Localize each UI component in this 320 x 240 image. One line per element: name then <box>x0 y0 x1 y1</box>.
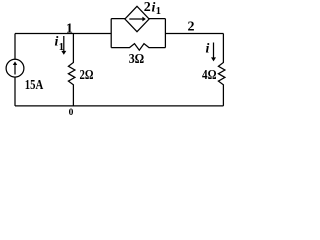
svg-text:3Ω: 3Ω <box>129 52 145 67</box>
svg-text:2: 2 <box>144 0 151 15</box>
svg-text:2: 2 <box>188 19 195 34</box>
svg-text:1: 1 <box>66 22 73 37</box>
svg-text:15A: 15A <box>25 78 44 93</box>
svg-text:0: 0 <box>69 108 74 118</box>
svg-text:i: i <box>206 42 210 57</box>
svg-text:2Ω: 2Ω <box>80 68 94 83</box>
svg-text:1: 1 <box>59 42 64 53</box>
svg-text:4Ω: 4Ω <box>202 68 217 83</box>
svg-text:1: 1 <box>156 6 161 17</box>
